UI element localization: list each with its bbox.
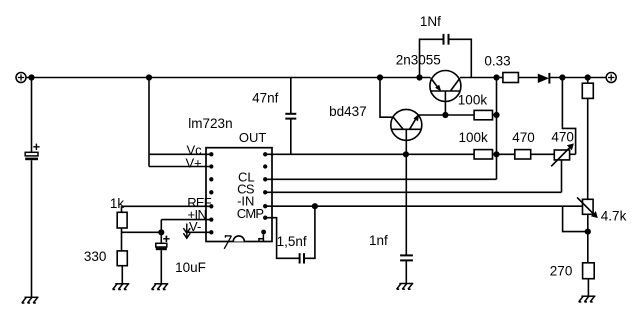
svg-text:bd437: bd437 [329,104,367,119]
node bd437 collector branch [378,75,383,80]
wire V+ [149,166,211,168]
IC lm723n body [206,148,272,242]
output terminal [606,73,616,83]
capacitor C-in polarized [25,144,39,159]
wire -IN branch down [563,206,588,231]
node 470 pot feedback [560,75,565,80]
wire 270 to ground [587,279,589,297]
V- down arrow [183,224,190,239]
potentiometer 470 [551,143,574,166]
node output resistor branch [585,75,590,80]
node 100k upper junction [494,113,499,118]
wire REF [122,205,212,207]
capacitor 1nf [400,255,413,260]
svg-text:1Nf: 1Nf [420,14,441,29]
resistor 100k upper [474,110,492,119]
potentiometer 4.7k [577,197,598,218]
svg-text:V-: V- [189,219,201,234]
wire 470 to pot [531,153,555,155]
wire divider to 10uF node [122,231,162,233]
wire -IN [265,205,582,207]
wire CMP jog [265,218,299,259]
svg-text:OUT: OUT [239,130,267,145]
svg-text:2n3055: 2n3055 [396,52,441,67]
capacitor 1Nf [444,34,449,45]
node 100k lower junction [494,152,499,157]
wire 47nf bottom [290,119,292,155]
wire pot to rail step [562,78,575,155]
wire output resistor top [587,78,589,84]
resistor 470 [515,150,531,159]
capacitor 47nf [285,114,296,119]
wire input cap drop [31,78,33,153]
resistor unlabeled output [582,83,593,98]
ground 270 [579,296,596,302]
wire 0.33 to diode [518,77,537,79]
wire input cap to ground [31,160,33,297]
wire bd437 emitter to 100k [418,114,474,116]
wire output resistor to 4.7k pot [587,98,589,199]
ground 10uF [152,284,169,290]
svg-text:47nf: 47nf [252,91,279,106]
svg-text:0.33: 0.33 [484,54,510,69]
svg-text:330: 330 [84,249,107,264]
wire 100k upper right lead [493,114,497,116]
wire Vc [149,153,211,155]
node 1Nf branch [417,75,422,80]
wire +IN riser [160,220,162,233]
svg-text:1nf: 1nf [369,233,388,248]
wire bd437 collector [380,78,393,118]
resistor 0.33 [503,73,519,83]
IC pin8 mark [258,234,264,241]
svg-text:1,5nf: 1,5nf [277,234,307,249]
node 1,5nf junction [313,204,318,209]
wire 1k bottom [121,228,123,251]
ground input [22,297,39,303]
resistor 330 [117,251,127,266]
IC right pin dots [261,152,267,234]
wire V- [187,231,211,233]
wire +IN [161,219,211,221]
wire CL riser [496,78,498,180]
svg-text:CMP: CMP [237,206,264,221]
node 10uF junction [159,230,164,235]
transistor bd437 [391,109,422,140]
wire 10uF to ground [160,250,162,284]
wire 330 to ground [121,266,123,284]
node pot 4.7k bottom junction [586,229,591,234]
ground 1nf [397,284,414,290]
wire 2n3055 base [444,91,446,115]
wire 1,5nf to -IN [304,206,315,258]
wire CS [265,191,561,193]
ground 330 [113,284,130,290]
IC pin7 mark [224,235,231,249]
svg-text:lm723n: lm723n [188,116,232,131]
wire 47nf top [290,78,292,114]
svg-text:4.7k: 4.7k [601,209,627,224]
wire diode to output terminal [551,77,607,79]
svg-text:10uF: 10uF [175,260,206,275]
wire 1Nf right [449,39,472,77]
wire 100k lower to 470 [493,153,515,155]
IC notch [233,236,244,242]
wire 1nf to ground [405,260,407,283]
wire bd437 base to OUT [405,129,407,154]
wire 1nf drop [405,154,407,255]
resistor 270 [583,263,595,279]
resistor 100k lower [474,150,492,159]
node bd437 base junction [404,152,409,157]
svg-text:470: 470 [551,129,574,144]
wire V+/Vc drop [148,78,150,167]
svg-text:270: 270 [550,264,573,279]
svg-text:1k: 1k [110,196,125,211]
node Vcc branch [147,75,152,80]
capacitor 10uF polarized [156,236,170,249]
wire pot right lead [570,153,576,155]
node 100k/CL branch [494,75,499,80]
wire 4.7k pot bottom [587,214,589,262]
transistor 2n3055 [430,71,461,102]
wire top rail [26,77,430,79]
svg-text:100k: 100k [458,92,488,107]
svg-text:100k: 100k [459,130,489,145]
resistor 1k [117,212,127,228]
svg-text:470: 470 [512,130,535,145]
svg-text:V+: V+ [186,155,202,170]
wire 1Nf left [420,39,444,77]
capacitor 1,5nf [300,253,304,263]
wire OUT [265,153,474,155]
wire 10uF top [160,232,162,243]
input terminal [16,73,26,83]
node 2n3055 base junction [443,113,448,118]
node input junction [29,75,34,80]
diode [538,73,550,84]
wire 1k top drop [121,206,123,212]
wire CS riser to pot bottom [561,160,563,192]
wire CL [265,178,496,180]
wire rail right of 2n3055 [460,77,503,79]
IC left pin dots [209,152,213,234]
